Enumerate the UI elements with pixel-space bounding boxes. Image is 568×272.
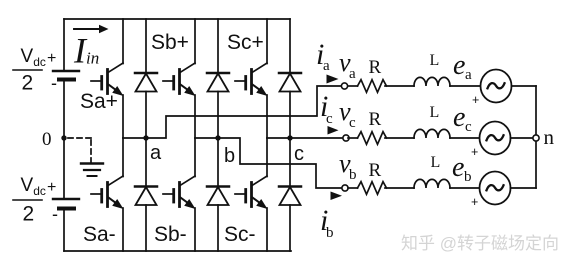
svg-text:b: b xyxy=(349,167,357,183)
source eb xyxy=(480,172,511,205)
transistor Sc- xyxy=(235,138,268,251)
wire R to L phase c xyxy=(385,137,414,139)
svg-text:+: + xyxy=(472,93,479,107)
diode Da+ xyxy=(135,19,157,138)
resistor R phase a xyxy=(358,80,387,93)
transistor Sb+ xyxy=(163,19,196,138)
inductor L phase c xyxy=(414,129,450,138)
source ec xyxy=(480,122,511,155)
wire phase b output xyxy=(218,138,342,188)
svg-text:2: 2 xyxy=(22,72,34,95)
inductor L phase a xyxy=(414,77,450,86)
wire dashed o to ground xyxy=(68,138,91,162)
wire vb to R xyxy=(348,187,358,189)
wire L to eb xyxy=(450,187,480,189)
current arrow ib xyxy=(331,192,343,201)
node b xyxy=(215,135,220,140)
wire left DC bus upper xyxy=(63,19,65,71)
svg-text:0: 0 xyxy=(42,129,52,150)
svg-text:L: L xyxy=(430,104,440,121)
value label Vdc/2 upper xyxy=(13,46,46,95)
svg-text:b: b xyxy=(326,225,334,241)
svg-text:L: L xyxy=(431,154,441,171)
svg-text:e: e xyxy=(453,102,465,133)
wire ea to right bus xyxy=(512,85,537,87)
transistor Sa+ xyxy=(91,19,124,138)
wire mid rail leg a xyxy=(123,137,146,139)
svg-text:c: c xyxy=(349,115,356,131)
svg-text:a: a xyxy=(465,67,472,83)
current arrow Iin xyxy=(74,25,109,33)
svg-text:Sb-: Sb- xyxy=(154,223,187,246)
transistor Sb- xyxy=(163,138,196,251)
wire top DC bus xyxy=(64,18,290,20)
wire R to L phase b xyxy=(385,187,414,189)
svg-text:Sc-: Sc- xyxy=(224,223,256,246)
svg-text:Sb+: Sb+ xyxy=(151,31,189,54)
ground xyxy=(81,164,103,177)
svg-text:b: b xyxy=(224,145,235,167)
svg-text:a: a xyxy=(349,66,356,82)
node vb terminal xyxy=(342,185,348,191)
svg-text:L: L xyxy=(430,52,440,69)
wire mid rail leg b xyxy=(195,137,218,139)
wire bottom DC bus xyxy=(64,250,291,252)
svg-text:-: - xyxy=(52,204,58,224)
wire L to ec xyxy=(450,137,480,139)
svg-text:R: R xyxy=(369,160,382,181)
node va terminal xyxy=(341,83,347,89)
svg-text:Sa+: Sa+ xyxy=(80,90,118,113)
svg-text:a: a xyxy=(323,58,330,74)
node a xyxy=(143,135,148,140)
svg-text:Sa-: Sa- xyxy=(83,223,116,246)
wire phase a output xyxy=(146,86,341,138)
battery Vdc/2 upper xyxy=(53,71,79,80)
svg-text:+: + xyxy=(471,145,478,159)
svg-text:R: R xyxy=(369,109,382,130)
wire right bus xyxy=(535,86,537,188)
wire left DC bus lower xyxy=(63,209,65,252)
node n xyxy=(533,135,539,141)
svg-text:n: n xyxy=(544,125,555,149)
svg-text:R: R xyxy=(369,57,382,78)
source ea xyxy=(481,70,512,103)
node o xyxy=(61,135,66,140)
current arrow ia xyxy=(327,75,339,84)
svg-text:b: b xyxy=(464,169,472,185)
svg-text:知乎 @转子磁场定向: 知乎 @转子磁场定向 xyxy=(401,234,559,253)
svg-text:Sc+: Sc+ xyxy=(227,31,264,54)
resistor R phase c xyxy=(358,132,387,145)
wire mid rail leg c xyxy=(267,137,290,139)
svg-text:+: + xyxy=(471,195,478,209)
wire eb to right bus xyxy=(511,187,537,189)
wire R to L phase a xyxy=(385,85,414,87)
diode Db- xyxy=(207,138,229,251)
svg-text:c: c xyxy=(326,111,333,127)
svg-text:c: c xyxy=(294,143,304,165)
wire ec to right bus xyxy=(511,137,537,139)
svg-text:a: a xyxy=(150,142,162,164)
wire va to R xyxy=(348,85,358,87)
diode Dc- xyxy=(279,138,301,251)
transistor Sa- xyxy=(91,138,124,251)
node c xyxy=(287,135,292,140)
battery Vdc/2 lower xyxy=(53,199,79,209)
svg-text:e: e xyxy=(452,152,464,183)
svg-text:in: in xyxy=(86,49,99,68)
svg-text:2: 2 xyxy=(23,203,35,226)
node vc terminal xyxy=(343,135,349,141)
inductor L phase b xyxy=(414,179,450,188)
svg-text:e: e xyxy=(453,50,465,81)
svg-text:-: - xyxy=(51,73,57,93)
wire left DC bus mid xyxy=(63,80,65,200)
diode Dc+ xyxy=(279,19,301,138)
svg-text:+: + xyxy=(47,179,56,196)
wire vc to R xyxy=(348,137,358,139)
diode Da- xyxy=(135,138,157,251)
svg-text:c: c xyxy=(465,119,472,135)
diode Db+ xyxy=(207,19,229,138)
svg-text:+: + xyxy=(47,50,56,67)
transistor Sc+ xyxy=(235,19,268,138)
resistor R phase b xyxy=(358,182,387,195)
wire L to ea xyxy=(450,85,481,87)
value label Vdc/2 lower xyxy=(13,175,46,226)
current arrow ic xyxy=(328,126,339,135)
wire phase c output xyxy=(290,137,343,139)
